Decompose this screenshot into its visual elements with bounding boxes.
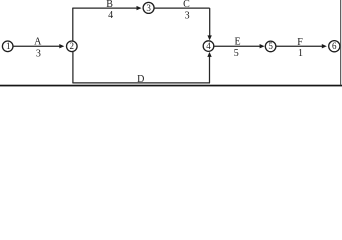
svg-text:D: D [137,74,144,85]
svg-text:2: 2 [70,41,75,51]
svg-text:E: E [234,37,240,48]
svg-text:5: 5 [234,48,239,59]
node 1 [2,41,13,52]
svg-text:3: 3 [36,49,41,60]
wire E (node 4 to node 5) [214,44,265,48]
svg-text:5: 5 [268,41,273,51]
node 2 [67,41,78,52]
node 5 [265,41,276,52]
svg-text:B: B [106,0,113,10]
svg-text:1: 1 [6,41,11,51]
node 4 [203,41,214,52]
svg-text:3: 3 [146,3,151,13]
svg-text:6: 6 [332,41,337,51]
svg-text:4: 4 [206,41,211,51]
right border line [340,0,341,85]
node 6 [329,41,340,52]
svg-text:C: C [183,0,190,10]
wire A (node 1 to node 2) [13,44,64,48]
svg-text:1: 1 [298,48,303,59]
bottom rule [0,85,342,87]
svg-text:4: 4 [108,10,113,21]
wire C (node 3 to corner, then down to node 4) [154,8,212,40]
wire node 2 up to corner [72,8,74,41]
node 3 [143,2,154,13]
wire D (node 2 down, across, up into node 4) [72,52,211,83]
svg-text:F: F [297,37,303,48]
svg-text:A: A [34,36,42,47]
wire B (corner to node 3) [72,6,141,10]
svg-text:3: 3 [185,10,190,21]
wire F (node 5 to node 6) [276,44,327,48]
